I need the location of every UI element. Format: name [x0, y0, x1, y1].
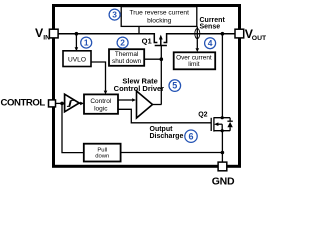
wire UVLO out to control logic with arrow [91, 62, 106, 91]
transistor Q1 [154, 33, 167, 46]
svg-text:logic: logic [94, 106, 108, 113]
wire thermal to gate [144, 58, 161, 60]
svg-text:Sense: Sense [200, 23, 221, 30]
svg-text:GND: GND [212, 175, 235, 187]
pin VIN [49, 29, 58, 38]
node VOUT-Q2 junction [221, 32, 225, 36]
wire blocking box left leg [138, 27, 140, 34]
svg-text:1: 1 [84, 38, 89, 48]
node pulldown-Q2 source junction [221, 151, 225, 155]
svg-text:Q1: Q1 [142, 37, 153, 46]
pin VOUT [235, 29, 244, 38]
svg-text:down: down [95, 154, 109, 160]
svg-text:6: 6 [188, 131, 193, 141]
svg-text:Q2: Q2 [198, 112, 207, 119]
wire VIN to UVLO with arrow [75, 34, 77, 48]
wire Q1 gate lead [160, 46, 162, 105]
node gate-thermal junction [160, 57, 164, 61]
svg-text:5: 5 [172, 81, 177, 91]
wire control logic to driver with arrow [118, 99, 132, 101]
svg-text:Pull: Pull [97, 147, 107, 153]
wire control logic to Q2 gate [118, 109, 211, 123]
svg-text:shut down: shut down [112, 58, 142, 65]
node marker 4 [205, 38, 216, 49]
node marker 2 [117, 37, 128, 48]
op-amp driver triangle [137, 91, 153, 118]
svg-text:CONTROL: CONTROL [1, 97, 46, 108]
pin GND [218, 162, 227, 171]
wire CONTROL down to pull-down [62, 103, 84, 152]
block pull down [84, 144, 121, 162]
current sense oval [195, 29, 200, 39]
wire current sense line with arrow [196, 27, 198, 49]
wire Q2 drain [221, 34, 223, 118]
IC boundary [54, 6, 240, 167]
svg-text:UVLO: UVLO [68, 57, 86, 64]
node marker 3 [109, 9, 120, 20]
buffer triangle with hysteresis [65, 94, 80, 112]
node marker 5 [169, 80, 181, 92]
svg-text:Control Driver: Control Driver [114, 84, 165, 93]
svg-text:Thermal: Thermal [115, 51, 138, 58]
node marker 1 [81, 37, 92, 48]
svg-text:4: 4 [208, 38, 213, 48]
wire CONTROL to buffer [56, 102, 65, 104]
pin CONTROL [49, 100, 56, 107]
node marker 6 [185, 130, 197, 142]
block true reverse current blocking [121, 7, 197, 27]
svg-text:Control: Control [90, 98, 112, 105]
svg-text:limit: limit [188, 61, 200, 68]
svg-text:3: 3 [112, 10, 117, 20]
svg-text:OUT: OUT [252, 35, 266, 42]
wire pull-down out to GND node [121, 152, 223, 154]
svg-text:True reverse current: True reverse current [129, 10, 189, 17]
block over current limit [174, 52, 216, 69]
block thermal shut down [109, 49, 144, 66]
node CONTROL junction [60, 102, 64, 106]
svg-text:IN: IN [43, 35, 50, 42]
block control logic [84, 94, 118, 113]
block UVLO [63, 51, 91, 67]
node VIN-UVLO junction [75, 32, 79, 36]
wire buffer out arrow [79, 102, 81, 104]
svg-text:Discharge: Discharge [150, 133, 184, 140]
wire VOUT rail right [167, 33, 235, 35]
svg-text:2: 2 [120, 38, 125, 48]
svg-text:blocking: blocking [147, 17, 172, 24]
transistor Q2 [211, 117, 230, 131]
wire Q2 source to GND [221, 131, 223, 163]
wire VIN rail left [58, 33, 154, 35]
